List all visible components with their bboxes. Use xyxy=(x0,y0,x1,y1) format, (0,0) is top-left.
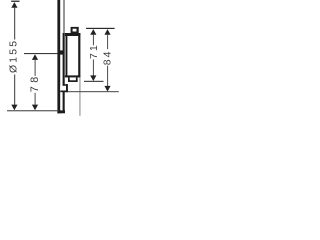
svg-text:71: 71 xyxy=(89,43,100,59)
dim 84 down arrow xyxy=(104,86,110,92)
dim 84 up arrow xyxy=(104,29,110,35)
hose outlet bottom bar xyxy=(60,91,68,93)
background xyxy=(0,0,120,120)
dim 84 lower stem xyxy=(107,66,108,86)
dim 71 down arrow xyxy=(90,75,96,81)
knob inner white xyxy=(73,29,77,32)
dim Ø155 down arrow xyxy=(11,105,17,111)
svg-text:84: 84 xyxy=(103,49,114,65)
dim 78 up arrow xyxy=(32,54,38,60)
dim 71 up arrow xyxy=(90,29,96,35)
dim 78 top reference line xyxy=(24,53,58,54)
extension line down from box corner xyxy=(79,77,82,116)
dim Ø155 top terminal bar xyxy=(11,1,19,2)
plate bottom cap xyxy=(57,110,65,113)
escutcheon plate right wall xyxy=(63,33,65,111)
escutcheon plate left wall xyxy=(57,0,60,113)
dim Ø155 upper stem xyxy=(14,8,15,40)
dim 78 down arrow xyxy=(32,105,38,111)
body box right edge xyxy=(78,33,80,77)
body box left edge xyxy=(66,33,68,77)
foot right edge xyxy=(76,77,78,82)
foot left edge xyxy=(68,77,70,82)
dim 71 upper stem xyxy=(93,35,94,46)
outlet wall gap white xyxy=(60,86,66,91)
body box top bar xyxy=(65,33,80,36)
escutcheon plate right wall upper (faint) xyxy=(63,0,64,33)
hose outlet right edge xyxy=(66,84,68,92)
svg-text:Ø155: Ø155 xyxy=(8,39,19,73)
dim 71 bottom reference line xyxy=(84,81,104,82)
valve crossbar inside plate xyxy=(60,50,63,54)
dim 84 bottom reference line xyxy=(68,91,119,92)
knob outer xyxy=(71,27,79,34)
dim 84 upper stem xyxy=(107,35,108,50)
foot bottom bar xyxy=(68,80,78,82)
dim 78 upper stem xyxy=(35,60,36,76)
svg-text:78: 78 xyxy=(29,73,41,92)
dim Ø155 up arrow xyxy=(11,2,17,8)
dim 71 lower stem xyxy=(93,59,94,75)
dim 78 lower stem xyxy=(35,93,36,105)
body box bottom bar xyxy=(65,75,80,77)
top right reference line xyxy=(86,28,115,29)
shared bottom reference line xyxy=(7,110,59,111)
dim Ø155 lower stem xyxy=(14,75,15,105)
hose outlet top bar xyxy=(63,84,68,86)
